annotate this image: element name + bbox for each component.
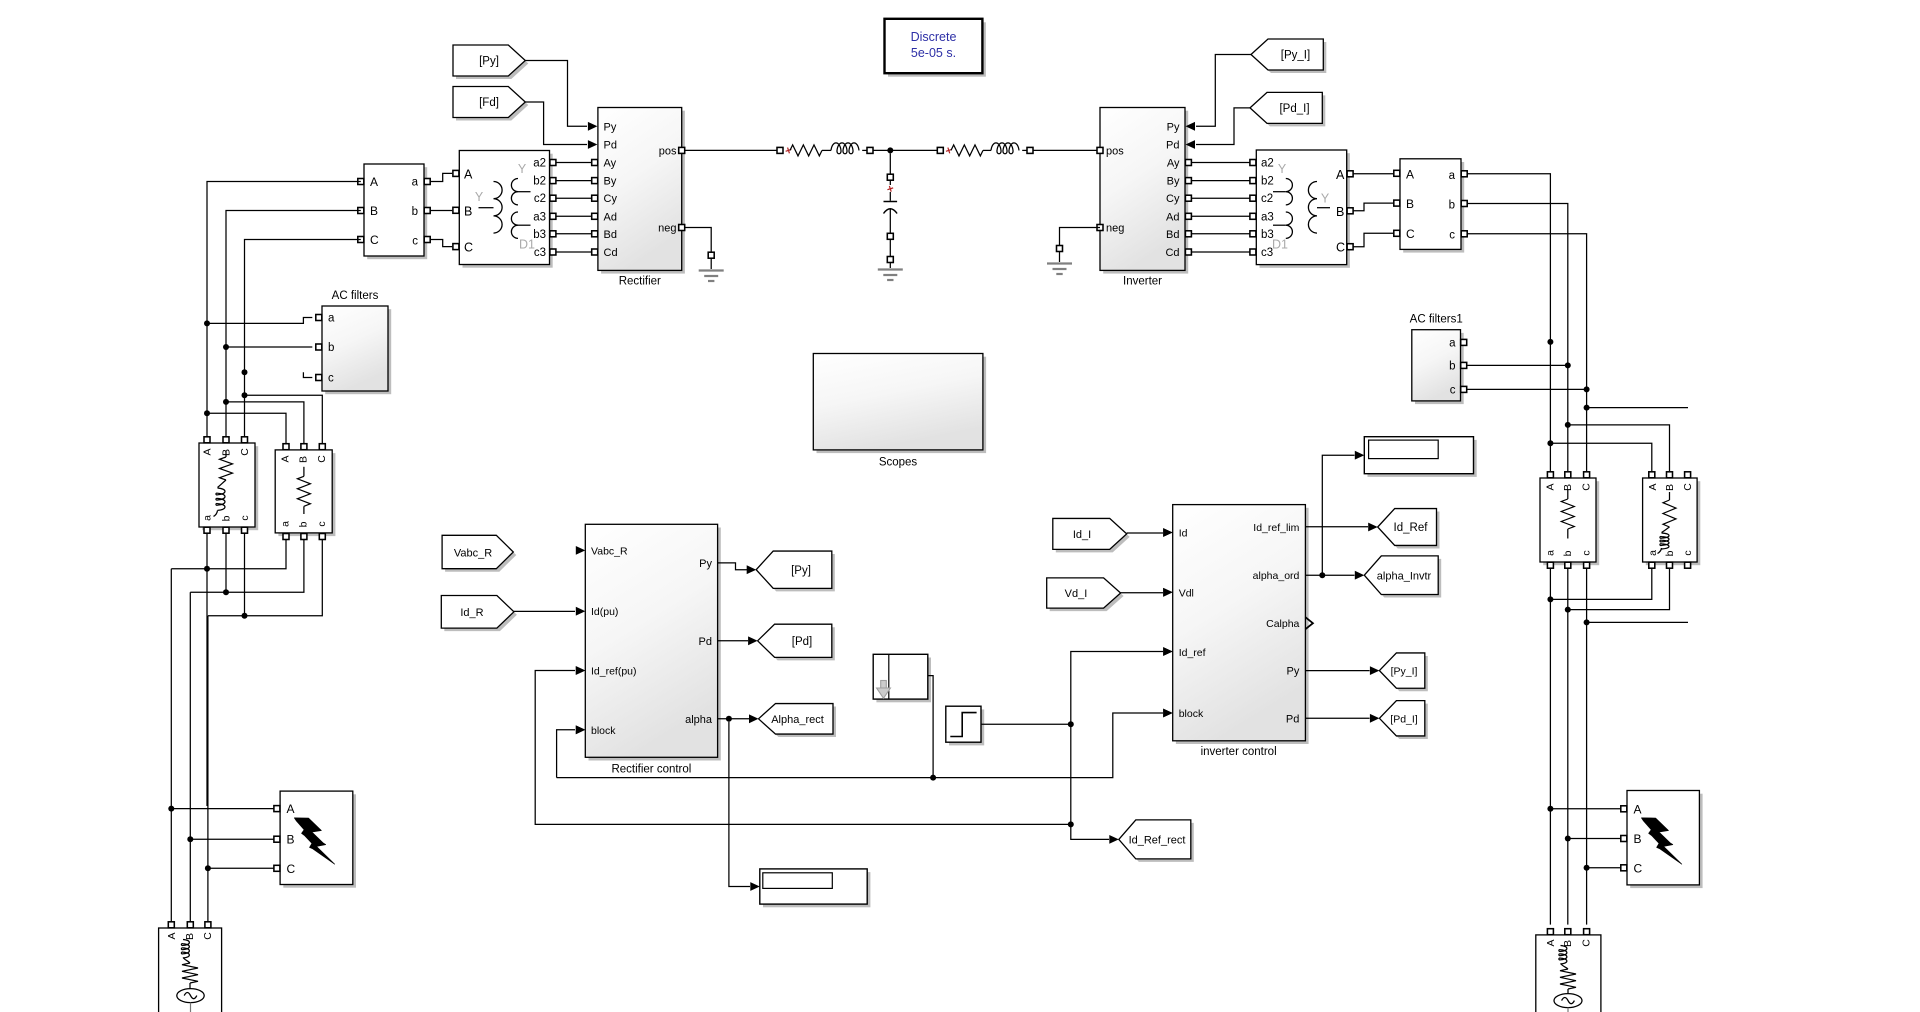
svg-text:Py: Py bbox=[1167, 121, 1180, 133]
svg-text:c: c bbox=[412, 236, 418, 248]
svg-text:Inverter: Inverter bbox=[1123, 276, 1162, 288]
wire Inverter neg to ground bbox=[1060, 228, 1101, 246]
svg-text:Id_ref_lim: Id_ref_lim bbox=[1253, 522, 1299, 534]
svg-text:Ay: Ay bbox=[604, 158, 617, 170]
svg-text:pos: pos bbox=[659, 146, 677, 158]
wire AC filters1 c bbox=[1467, 388, 1586, 390]
svg-text:A: A bbox=[287, 802, 295, 816]
wire Inverter to T2 bbox=[1189, 180, 1250, 182]
T2 secondary winding Y bbox=[1286, 179, 1293, 205]
wire B2.b down feeder B right bbox=[1467, 204, 1567, 472]
svg-text:a2: a2 bbox=[533, 158, 546, 170]
wire net to Id_Ref_rect bbox=[1071, 824, 1109, 839]
goto tag Id_Ref_rect bbox=[1122, 823, 1194, 862]
block SRC right AC source branch bbox=[1536, 935, 1601, 1012]
svg-text:b2: b2 bbox=[1261, 176, 1274, 188]
svg-text:Pd: Pd bbox=[699, 636, 712, 648]
node left b branch bbox=[223, 399, 229, 405]
svg-text:By: By bbox=[604, 176, 617, 188]
svg-text:neg: neg bbox=[658, 223, 676, 235]
wire Pd to [Pd_I] bbox=[1305, 717, 1369, 719]
svg-text:Alpha_rect: Alpha_rect bbox=[771, 714, 824, 726]
svg-text:alpha_ord: alpha_ord bbox=[1253, 570, 1300, 582]
wire [Py] to Rectifier Py bbox=[525, 61, 587, 127]
svg-text:a: a bbox=[202, 515, 214, 521]
svg-text:Py: Py bbox=[699, 558, 712, 570]
svg-text:Py: Py bbox=[604, 121, 617, 133]
goto tag Id_Ref bbox=[1381, 512, 1440, 549]
SRC left icon bbox=[181, 940, 189, 959]
svg-text:Vdl: Vdl bbox=[1179, 587, 1194, 599]
svg-text:c: c bbox=[1682, 550, 1694, 555]
wire Step out bbox=[981, 723, 1071, 725]
svg-text:pos: pos bbox=[1106, 146, 1124, 158]
wire LR1.c down bbox=[244, 533, 246, 615]
wire B2.a down feeder A right bbox=[1467, 174, 1550, 471]
wire T1 to Rectifier bbox=[556, 215, 595, 217]
wire left phase b down bbox=[189, 592, 191, 921]
svg-text:c: c bbox=[328, 373, 334, 385]
node block net bbox=[930, 775, 936, 781]
svg-text:b: b bbox=[1664, 550, 1676, 556]
svg-text:Id_ref: Id_ref bbox=[1179, 647, 1206, 659]
block Step bbox=[949, 709, 984, 745]
wire Id_I to Id bbox=[1127, 532, 1163, 534]
block Inverter bbox=[1103, 111, 1188, 274]
wire join b bbox=[190, 540, 304, 593]
svg-text:Ad: Ad bbox=[1166, 211, 1179, 223]
wire AC filters b bbox=[226, 346, 312, 348]
from tag Vd_I bbox=[1050, 581, 1124, 611]
from tag [Fd] bbox=[456, 90, 528, 121]
wire left phase a down bbox=[170, 569, 172, 922]
from tag [Py_I] top bbox=[1254, 42, 1326, 73]
svg-text:Pd: Pd bbox=[1166, 140, 1179, 152]
svg-text:a3: a3 bbox=[533, 211, 546, 223]
svg-text:Pd: Pd bbox=[604, 140, 617, 152]
svg-text:c: c bbox=[1450, 384, 1456, 396]
svg-text:C: C bbox=[202, 932, 214, 940]
wire AC filters a bbox=[207, 318, 312, 324]
svg-text:[Pd_I]: [Pd_I] bbox=[1390, 713, 1418, 725]
svg-text:c: c bbox=[316, 521, 328, 526]
svg-text:neg: neg bbox=[1106, 223, 1124, 235]
node alpha_ord branch bbox=[1319, 572, 1325, 578]
node left a join bbox=[204, 566, 210, 572]
block RB2 shunt RL branch bbox=[1646, 481, 1701, 565]
svg-text:D1: D1 bbox=[1272, 238, 1288, 252]
svg-text:Cy: Cy bbox=[1166, 193, 1180, 205]
svg-text:A: A bbox=[464, 168, 473, 182]
wire B1.c to T1.C bbox=[430, 240, 452, 247]
capacitor branch to ground bbox=[887, 174, 893, 180]
T2 primary winding bbox=[1308, 182, 1317, 234]
svg-text:[Fd]: [Fd] bbox=[479, 97, 499, 109]
svg-text:Bd: Bd bbox=[1166, 229, 1179, 241]
svg-text:A: A bbox=[202, 448, 214, 455]
ground (DC mid) bbox=[878, 268, 903, 270]
svg-text:Id(pu): Id(pu) bbox=[591, 606, 618, 618]
T1 primary winding bbox=[494, 182, 503, 234]
svg-text:B: B bbox=[287, 833, 295, 847]
svg-text:b: b bbox=[1449, 360, 1455, 372]
goto tag [Pd_I] mid bbox=[1382, 704, 1427, 739]
wire T1 to Rectifier bbox=[556, 180, 595, 182]
svg-text:a: a bbox=[1647, 550, 1659, 556]
wire join a bbox=[171, 540, 286, 569]
svg-text:b3: b3 bbox=[533, 229, 546, 241]
svg-text:Vabc_R: Vabc_R bbox=[591, 545, 628, 557]
node right fault B bbox=[1565, 836, 1571, 842]
svg-text:B: B bbox=[1664, 484, 1676, 491]
wire Inverter to T2 bbox=[1189, 251, 1250, 253]
wire T1 to Rectifier bbox=[556, 197, 595, 199]
goto tag [Pd] mid bbox=[761, 627, 835, 660]
svg-text:B: B bbox=[184, 933, 196, 940]
svg-text:a: a bbox=[1449, 170, 1456, 182]
node left c join bbox=[242, 613, 248, 619]
wire Rectifier pos to smoothing reactor bbox=[685, 149, 777, 151]
wire B2.c down feeder C right bbox=[1467, 234, 1586, 471]
block FR three-phase fault (right) bbox=[1630, 794, 1702, 888]
svg-text:Bd: Bd bbox=[604, 229, 617, 241]
wire Id_ref_lim to Id_Ref bbox=[1305, 526, 1368, 528]
svg-text:c2: c2 bbox=[1261, 193, 1273, 205]
wire LR1.a down bbox=[206, 533, 208, 806]
wire alpha_ord to Display2 bbox=[1322, 455, 1354, 575]
svg-text:B: B bbox=[1634, 832, 1642, 846]
svg-text:A: A bbox=[1545, 939, 1557, 946]
wire B1.A feeder left a bbox=[207, 182, 361, 440]
wire T2.B to B2.B bbox=[1353, 203, 1393, 211]
wire RB1.a down bbox=[1549, 568, 1551, 806]
series RLC branch smoothing reactor 2 bbox=[937, 147, 943, 153]
wire B1.C feeder left c bbox=[245, 240, 361, 440]
block FL three-phase fault (left) bbox=[283, 794, 356, 887]
svg-text:Y: Y bbox=[475, 190, 484, 204]
wire join b to RB2.b bbox=[1568, 568, 1670, 609]
svg-text:[Py_I]: [Py_I] bbox=[1391, 666, 1418, 678]
wire Inverter to T2 bbox=[1189, 215, 1250, 217]
node left c bbox=[242, 369, 248, 375]
wire left a to RR1.A bbox=[207, 413, 286, 447]
wire B1.B feeder left b bbox=[226, 211, 361, 440]
block Display2 bbox=[1368, 440, 1477, 477]
svg-text:C: C bbox=[464, 241, 473, 255]
svg-text:Rectifier: Rectifier bbox=[619, 276, 661, 288]
svg-text:Id_R: Id_R bbox=[460, 607, 483, 619]
svg-text:[Py_I]: [Py_I] bbox=[1281, 50, 1310, 62]
svg-text:block: block bbox=[1179, 708, 1204, 720]
goto tag [Py_I] mid bbox=[1382, 656, 1427, 691]
svg-text:alpha_Invtr: alpha_Invtr bbox=[1377, 570, 1432, 582]
from tag Id_R bbox=[444, 599, 517, 632]
block rate limiter bbox=[876, 658, 931, 703]
wire T1 to Rectifier bbox=[556, 233, 595, 235]
wire LR1.b down bbox=[225, 533, 227, 592]
svg-text:B: B bbox=[464, 204, 472, 218]
block RR1 shunt resistor branch bbox=[278, 453, 335, 536]
node left a branch bbox=[204, 410, 210, 416]
svg-text:Id: Id bbox=[1179, 528, 1188, 540]
node left b - AC filters b bbox=[223, 344, 229, 350]
node right fault C bbox=[1584, 865, 1590, 871]
wire Inverter to T2 bbox=[1189, 233, 1250, 235]
T1 secondary winding D1 bbox=[511, 212, 518, 238]
T2 secondary winding D1 bbox=[1286, 212, 1293, 238]
wire block net bbox=[557, 730, 575, 778]
svg-text:c3: c3 bbox=[534, 247, 546, 259]
svg-text:Id_ref(pu): Id_ref(pu) bbox=[591, 666, 637, 678]
from tag Vabc_R bbox=[445, 538, 516, 571]
wire feeder C open stub right bbox=[1587, 407, 1688, 409]
node right b join bbox=[1565, 607, 1571, 613]
block LR1 shunt RL branch bbox=[202, 446, 258, 530]
wire join a to RB2.a bbox=[1550, 568, 1651, 599]
svg-text:b2: b2 bbox=[533, 176, 546, 188]
svg-text:C: C bbox=[287, 862, 296, 876]
block RB1 shunt resistor branch bbox=[1543, 481, 1599, 565]
from tag [Pd_I] top bbox=[1253, 95, 1325, 126]
wire alpha to Display1 bbox=[729, 722, 750, 887]
node feeder C - AC filters1 c bbox=[1584, 386, 1590, 392]
node left fault B bbox=[187, 836, 193, 842]
node DC mid junction bbox=[887, 147, 893, 153]
wire join c bbox=[208, 540, 322, 616]
wire AC filters1 b bbox=[1467, 364, 1567, 366]
wire RB1.b down bbox=[1567, 568, 1569, 836]
node step net bbox=[1068, 721, 1074, 727]
goto tag alpha_Invtr bbox=[1367, 559, 1441, 598]
svg-text:Y: Y bbox=[518, 162, 527, 176]
wire [Pd_I] to Inverter Pd bbox=[1196, 108, 1250, 145]
svg-text:[Py]: [Py] bbox=[479, 56, 499, 68]
svg-text:A: A bbox=[166, 932, 178, 939]
wire left b to RR1.B bbox=[226, 402, 304, 447]
goto tag Alpha_rect bbox=[762, 707, 837, 738]
svg-text:[Pd_I]: [Pd_I] bbox=[1279, 103, 1309, 115]
svg-text:c: c bbox=[1449, 230, 1455, 242]
block Display1 bbox=[763, 872, 870, 907]
wire left c to RR1.C bbox=[245, 395, 323, 447]
svg-text:C: C bbox=[370, 233, 379, 247]
svg-text:C: C bbox=[239, 448, 251, 456]
node feeder A branch bbox=[1547, 440, 1553, 446]
svg-text:b: b bbox=[298, 521, 310, 527]
svg-text:b: b bbox=[412, 206, 418, 218]
RB2 resistor+inductor icon bbox=[1669, 492, 1671, 500]
SRC right icon bbox=[1559, 946, 1567, 965]
wire reactor1 to node bbox=[873, 149, 937, 151]
svg-text:b: b bbox=[1449, 199, 1455, 211]
wire left phase c down bbox=[207, 616, 209, 922]
block AC filters bbox=[325, 309, 391, 394]
FR lightning icon bbox=[1642, 818, 1682, 864]
svg-text:Cd: Cd bbox=[1165, 247, 1179, 259]
svg-text:C: C bbox=[1581, 939, 1593, 947]
wire to FL.C bbox=[208, 867, 274, 869]
block SRC left AC source branch bbox=[159, 928, 222, 1012]
wire Id_R to Id(pu) bbox=[514, 610, 575, 612]
wire Pd to goto [Pd] bbox=[718, 640, 748, 642]
wire alpha_ord to alpha_Invtr bbox=[1305, 574, 1354, 576]
wire step net up to Id_ref bbox=[1071, 652, 1163, 725]
wire [Py_I] to Inverter Py bbox=[1196, 55, 1251, 127]
svg-text:Pd: Pd bbox=[1286, 713, 1299, 725]
svg-text:AC filters1: AC filters1 bbox=[1410, 314, 1463, 326]
wire T1 to Rectifier bbox=[556, 162, 595, 164]
svg-text:block: block bbox=[591, 725, 616, 737]
node right a join bbox=[1547, 596, 1553, 602]
wire [Fd] to Rectifier Pd bbox=[525, 102, 587, 145]
node left a - AC filters a bbox=[204, 320, 210, 326]
svg-text:[Pd]: [Pd] bbox=[792, 636, 812, 648]
wire AC filters c open stub bbox=[303, 372, 312, 377]
wire node to capacitor bbox=[889, 153, 891, 174]
wire Vd_I to Vdl bbox=[1121, 592, 1163, 594]
svg-text:Calpha: Calpha bbox=[1266, 618, 1299, 630]
FL lightning icon bbox=[294, 818, 334, 864]
block Rectifier control bbox=[589, 528, 721, 761]
node Id_ref net low bbox=[1068, 821, 1074, 827]
block inverter control bbox=[1176, 508, 1309, 744]
wire Py to [Py_I] bbox=[1305, 670, 1369, 672]
svg-text:C: C bbox=[316, 455, 328, 463]
wire join c open stub bbox=[1587, 621, 1688, 623]
svg-text:inverter control: inverter control bbox=[1201, 746, 1277, 758]
node left fault C bbox=[205, 865, 211, 871]
block B1 three-phase V-I measurement bbox=[367, 167, 427, 259]
wire Inverter to T2 bbox=[1189, 197, 1250, 199]
node feeder B branch bbox=[1565, 422, 1571, 428]
svg-text:Scopes: Scopes bbox=[879, 457, 918, 469]
svg-text:A: A bbox=[1336, 168, 1345, 182]
svg-text:alpha: alpha bbox=[685, 714, 713, 726]
wire Inverter to T2 bbox=[1189, 162, 1250, 164]
svg-text:Vabc_R: Vabc_R bbox=[454, 548, 492, 560]
svg-text:Id_I: Id_I bbox=[1073, 529, 1091, 541]
wire to FR.B bbox=[1568, 838, 1621, 840]
node right c join bbox=[1584, 619, 1590, 625]
wire step net down bbox=[1070, 724, 1072, 824]
node left fault A bbox=[168, 806, 174, 812]
svg-text:a: a bbox=[328, 313, 335, 325]
node alpha branch bbox=[726, 716, 732, 722]
svg-text:Y: Y bbox=[1321, 192, 1330, 206]
powergui block Discrete bbox=[888, 22, 986, 76]
wire T2.C to B2.C bbox=[1353, 233, 1393, 246]
wire feeder B to RB2.B bbox=[1568, 425, 1670, 471]
node left b join bbox=[223, 589, 229, 595]
wire T2.A to B2.A bbox=[1353, 173, 1393, 175]
svg-text:A: A bbox=[280, 455, 292, 462]
from tag [Py] bbox=[456, 48, 528, 79]
svg-text:Vd_I: Vd_I bbox=[1065, 588, 1088, 600]
svg-text:C: C bbox=[1634, 861, 1643, 875]
RR1 resistor icon bbox=[303, 467, 305, 477]
block B2 three-phase V-I measurement bbox=[1403, 162, 1464, 253]
svg-text:a3: a3 bbox=[1261, 211, 1274, 223]
svg-text:Py: Py bbox=[1287, 666, 1300, 678]
svg-text:5e-05 s.: 5e-05 s. bbox=[911, 46, 956, 60]
svg-text:a: a bbox=[412, 177, 419, 189]
wire RB1.c down bbox=[1586, 568, 1588, 865]
wire Py to goto [Py] bbox=[718, 563, 747, 570]
svg-text:B: B bbox=[370, 204, 378, 218]
wire to FR.A bbox=[1550, 808, 1620, 810]
svg-text:A: A bbox=[370, 175, 378, 189]
svg-text:By: By bbox=[1167, 176, 1180, 188]
svg-text:B: B bbox=[1406, 197, 1414, 211]
wire B1.a to T1.A bbox=[430, 173, 452, 181]
svg-text:c: c bbox=[239, 515, 251, 520]
svg-text:B: B bbox=[1336, 205, 1344, 219]
wire T1 to Rectifier bbox=[556, 251, 595, 253]
wire right feeders to source bbox=[1549, 809, 1551, 925]
wire reactor2 to Inverter pos bbox=[1033, 149, 1097, 151]
wire to FL.B bbox=[190, 838, 273, 840]
wire net to Id_ref(pu) bbox=[535, 671, 1071, 825]
svg-text:a: a bbox=[280, 521, 292, 527]
ground (rectifier neg) bbox=[710, 258, 712, 269]
LR1 resistor+inductor icon bbox=[225, 451, 227, 458]
svg-text:C: C bbox=[1682, 483, 1694, 491]
svg-text:c2: c2 bbox=[534, 193, 546, 205]
goto tag [Py] mid bbox=[759, 554, 835, 591]
svg-text:b: b bbox=[328, 342, 334, 354]
node left c branch bbox=[242, 392, 248, 398]
svg-text:AC filters: AC filters bbox=[332, 290, 379, 302]
svg-text:Rectifier control: Rectifier control bbox=[611, 764, 691, 776]
ground (inverter neg) bbox=[1059, 252, 1061, 262]
svg-text:Id_Ref_rect: Id_Ref_rect bbox=[1129, 835, 1186, 847]
wire alpha to goto Alpha_rect bbox=[718, 718, 749, 720]
node feeder B - AC filters1 b bbox=[1565, 362, 1571, 368]
node feeder A - AC filters1 a bbox=[1547, 339, 1553, 345]
svg-text:[Py]: [Py] bbox=[791, 565, 811, 577]
svg-text:B: B bbox=[298, 456, 310, 463]
svg-text:b: b bbox=[221, 515, 233, 521]
T1 secondary winding Y bbox=[511, 179, 518, 205]
svg-text:Cd: Cd bbox=[604, 247, 618, 259]
Calpha unconnected chevron bbox=[1305, 617, 1313, 629]
svg-text:A: A bbox=[1545, 483, 1557, 490]
svg-text:Y: Y bbox=[1278, 162, 1287, 176]
wire rate limiter down to block net bbox=[928, 676, 933, 778]
block AC filters1 bbox=[1415, 333, 1464, 404]
svg-text:C: C bbox=[1581, 483, 1593, 491]
svg-text:Discrete: Discrete bbox=[911, 30, 957, 44]
svg-text:A: A bbox=[1634, 802, 1642, 816]
svg-text:c: c bbox=[1581, 550, 1593, 555]
block T1 converter transformer (rectifier side) bbox=[463, 154, 553, 268]
svg-text:Ay: Ay bbox=[1167, 158, 1180, 170]
svg-text:A: A bbox=[1406, 167, 1414, 181]
wire to FL.A bbox=[171, 808, 273, 810]
node feeder C branch bbox=[1584, 405, 1590, 411]
svg-text:D1: D1 bbox=[519, 238, 535, 252]
wire B1.b to T1.B bbox=[430, 210, 452, 212]
block T2 converter transformer (inverter side) bbox=[1260, 153, 1350, 268]
svg-text:b: b bbox=[1562, 550, 1574, 556]
svg-text:C: C bbox=[1336, 241, 1345, 255]
svg-text:A: A bbox=[1647, 483, 1659, 490]
wire feeder A to RB2.A bbox=[1550, 443, 1651, 471]
svg-text:Cy: Cy bbox=[604, 193, 618, 205]
series RLC branch smoothing reactor 1 bbox=[777, 147, 783, 153]
svg-text:Id_Ref: Id_Ref bbox=[1394, 522, 1429, 534]
block Scopes bbox=[817, 357, 987, 453]
